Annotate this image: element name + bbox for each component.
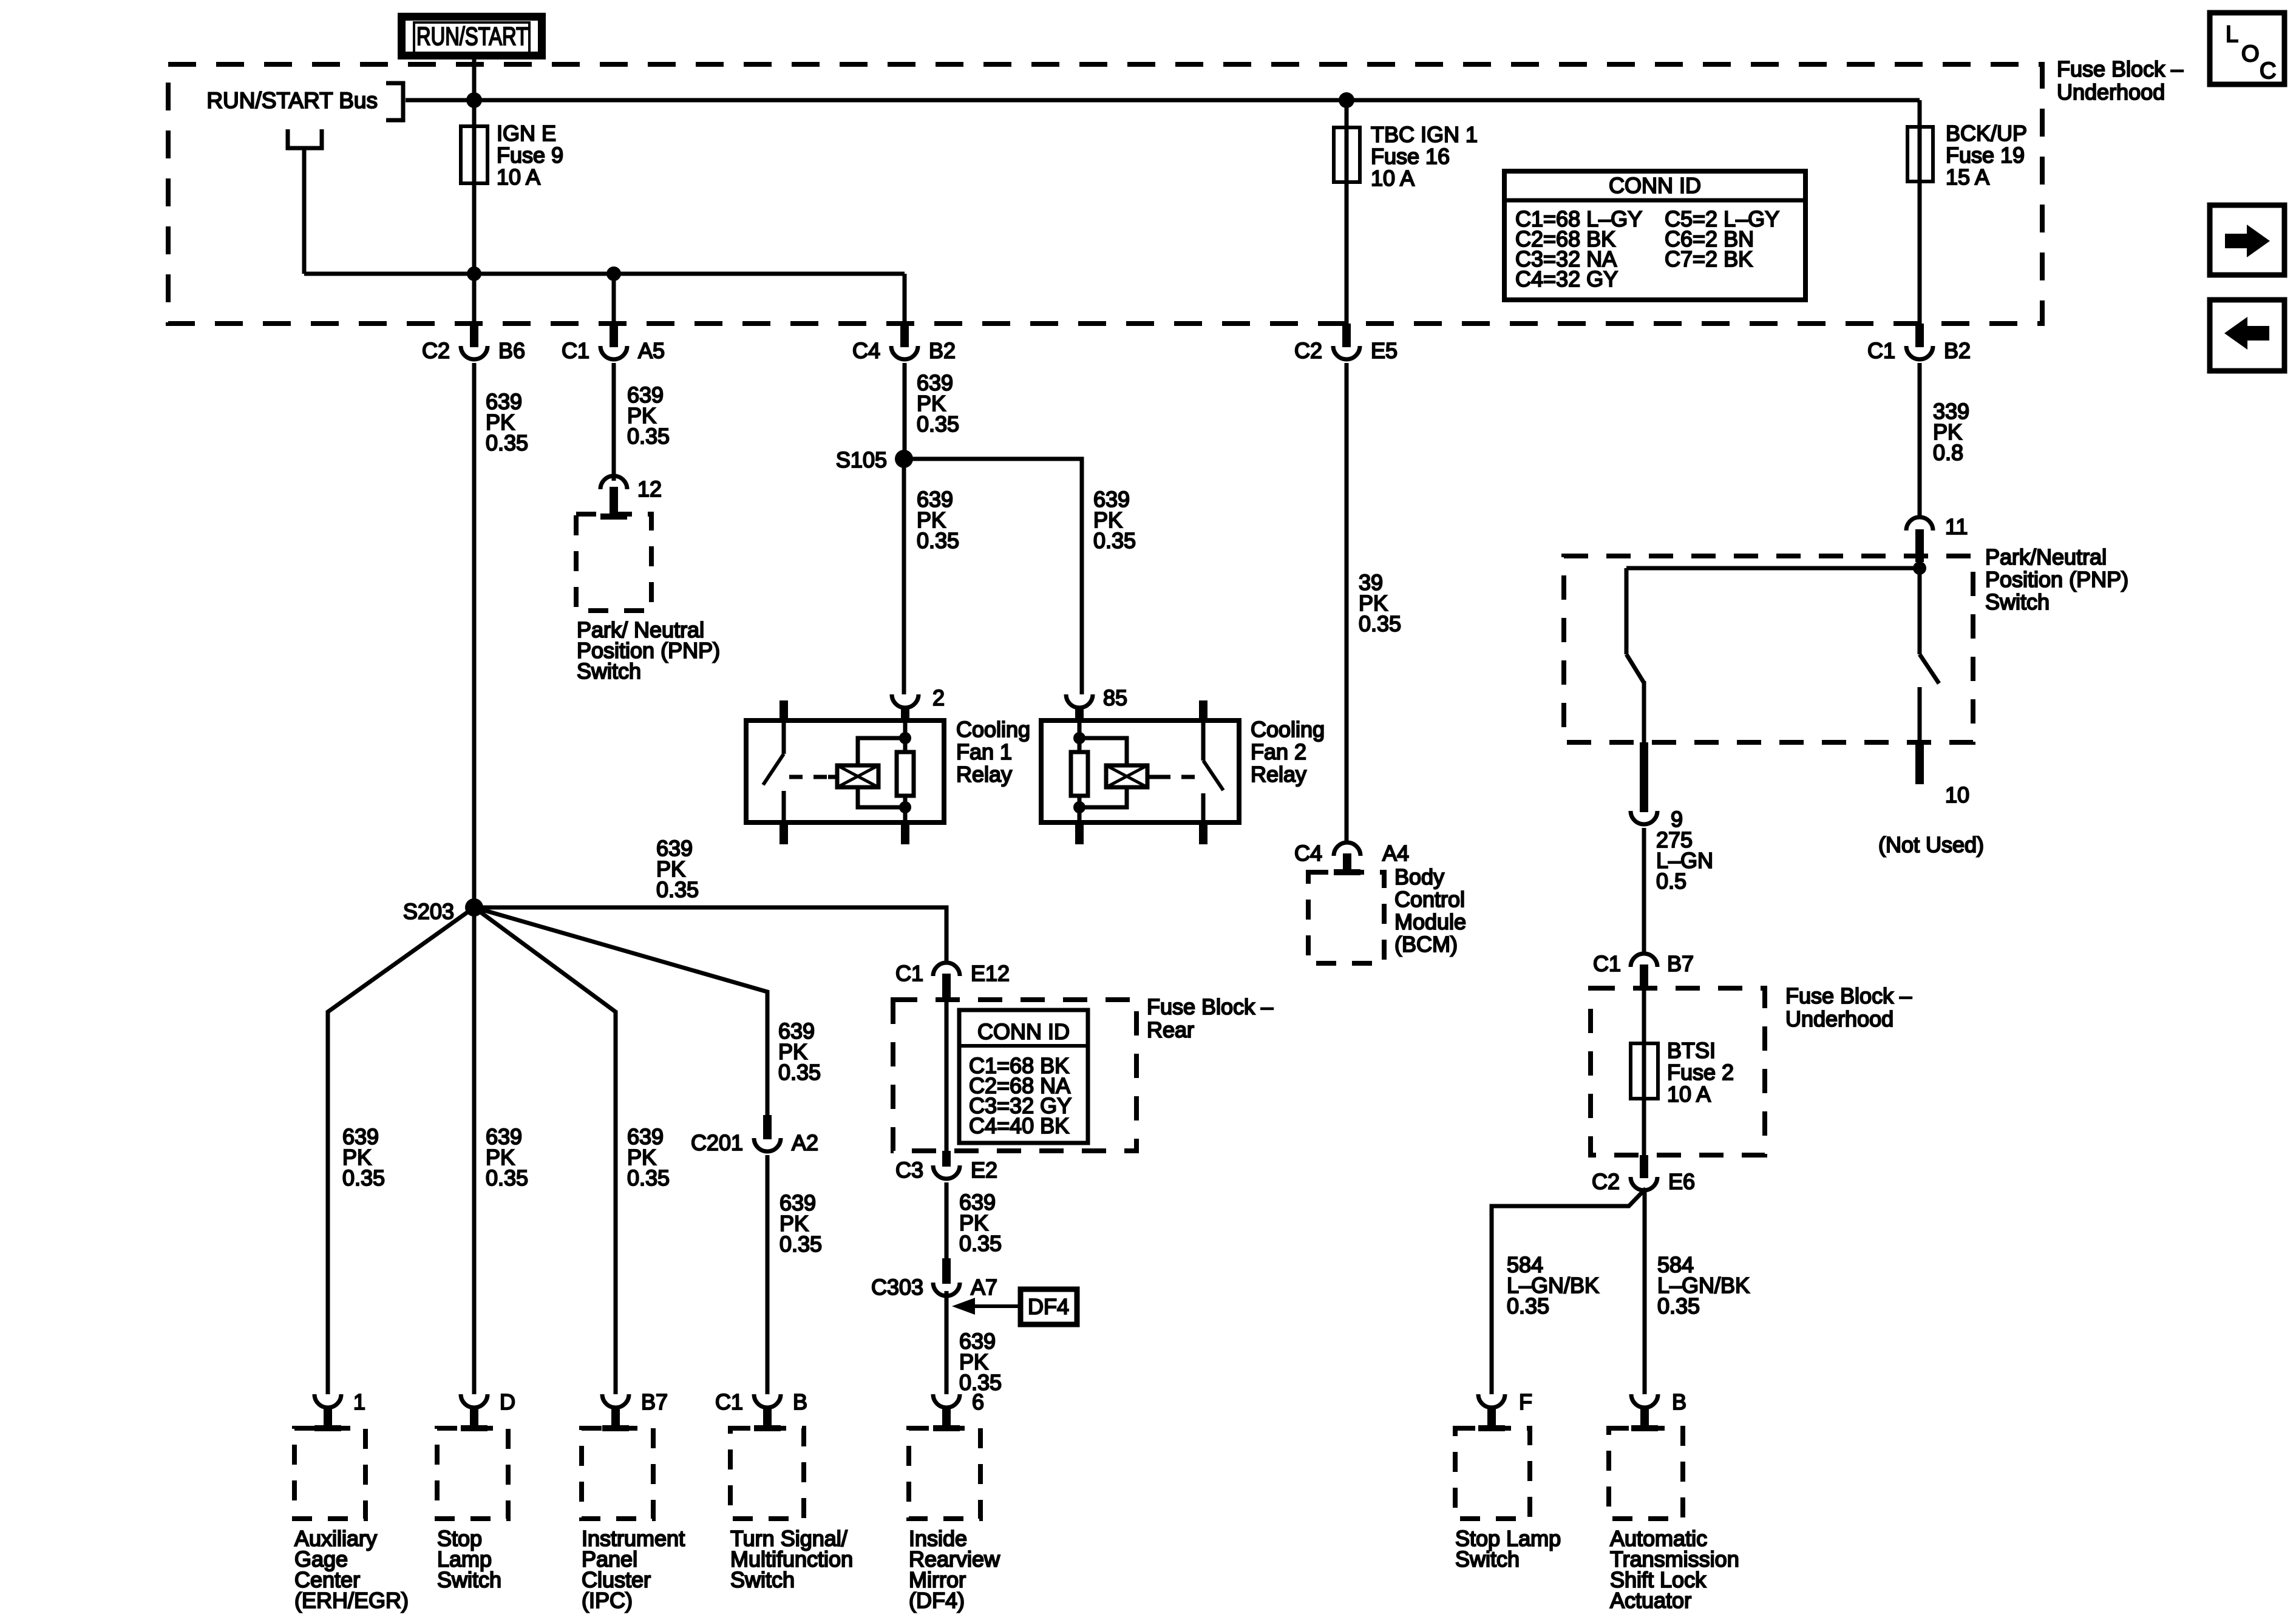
- wire C1 A5 tap down to dashed edge: [612, 274, 616, 324]
- component auxiliary gage center (dashed): [294, 1428, 409, 1613]
- fuse F2 BTSI: [1631, 988, 1734, 1155]
- svg-text:A7: A7: [971, 1275, 997, 1300]
- wire rail corner down to C4 B2 exit: [903, 274, 907, 324]
- node junction rail at C1 A5 tap: [606, 266, 621, 281]
- svg-text:Fuse 2: Fuse 2: [1667, 1060, 1734, 1085]
- wire C201 to turn signal switch: [767, 1155, 822, 1394]
- wire S203 branch to fuse block rear: [474, 836, 946, 964]
- svg-text:O: O: [2241, 41, 2260, 67]
- svg-text:C4: C4: [1294, 841, 1322, 866]
- svg-text:Switch: Switch: [577, 659, 641, 683]
- svg-text:BTSI: BTSI: [1667, 1038, 1716, 1063]
- connector C201 pin A2: [691, 1115, 818, 1155]
- connector C1 pin B7 into fuse block: [1593, 951, 1694, 988]
- connector C303 pin A7: [871, 1258, 997, 1300]
- node bus junction at IGN E feed: [466, 92, 482, 108]
- connector pin D stop lamp switch: [461, 1389, 515, 1428]
- svg-text:RUN/START: RUN/START: [416, 22, 528, 50]
- reference arrow DF4: [952, 1289, 1077, 1324]
- wire 639 PK from A5 to PNP pin 12: [614, 363, 670, 481]
- connector pin B7 instrument panel cluster: [602, 1389, 668, 1428]
- svg-text:(IPC): (IPC): [582, 1588, 633, 1613]
- svg-text:(ERH/EGR): (ERH/EGR): [294, 1588, 409, 1613]
- wire PNP internal feed: [1626, 556, 1920, 568]
- svg-text:CONN ID: CONN ID: [977, 1019, 1070, 1044]
- wire 639 PK C303 to inside rearview mirror: [946, 1291, 1002, 1395]
- splice S203: [403, 898, 483, 924]
- svg-text:C: C: [2260, 58, 2276, 84]
- connector pin 2 at relay 1: [892, 685, 945, 720]
- svg-text:0.35: 0.35: [627, 424, 670, 449]
- label cooling fan 1 relay: [956, 717, 1030, 787]
- wire 639 PK from B6 down to S203: [474, 363, 528, 907]
- wire S203 branch to instrument panel cluster: [474, 907, 670, 1394]
- svg-text:0.35: 0.35: [627, 1165, 670, 1190]
- svg-text:15 A: 15 A: [1946, 164, 1989, 189]
- connector pin 85 at relay 2: [1066, 685, 1127, 720]
- svg-text:Cooling: Cooling: [956, 717, 1030, 742]
- component turn signal multifunction switch (dashed): [730, 1428, 853, 1592]
- svg-text:(BCM): (BCM): [1394, 932, 1458, 957]
- wire S105 branch to cooling fan 2 relay pin 85: [904, 459, 1136, 694]
- power feed label box RUN/START: [402, 17, 542, 56]
- svg-text:RUN/START Bus: RUN/START Bus: [206, 88, 378, 113]
- wire 339 PK from B2 down to PNP pin 11: [1920, 363, 1969, 517]
- RUN/START Bus bracket: [206, 83, 403, 120]
- component stop lamp switch (left, dashed): [437, 1428, 508, 1592]
- svg-text:C1: C1: [1867, 338, 1895, 363]
- switch PNP contact 10 (open): [1920, 568, 1939, 742]
- svg-text:Fuse Block –: Fuse Block –: [1785, 983, 1912, 1008]
- svg-text:C2: C2: [422, 338, 450, 363]
- svg-text:0.5: 0.5: [1656, 869, 1686, 893]
- svg-text:Position (PNP): Position (PNP): [1985, 567, 2128, 592]
- svg-text:L: L: [2226, 22, 2238, 47]
- svg-text:0.35: 0.35: [1507, 1293, 1549, 1318]
- fuse block rear dashed outline: [893, 994, 1273, 1151]
- svg-text:Actuator: Actuator: [1610, 1588, 1691, 1613]
- connector C2 pin E6: [1592, 1155, 1695, 1194]
- wire 39 PK from E5 down to BCM: [1347, 363, 1401, 842]
- svg-text:Underhood: Underhood: [1785, 1006, 1894, 1031]
- svg-text:0.35: 0.35: [486, 1165, 528, 1190]
- connector pin 6 inside rearview mirror: [933, 1389, 984, 1428]
- connector C2 pin E5: [1294, 324, 1398, 363]
- svg-text:C2: C2: [1294, 338, 1322, 363]
- fuse block underhood lower dashed outline: [1591, 983, 1912, 1155]
- svg-text:0.8: 0.8: [1933, 440, 1963, 465]
- svg-text:TBC IGN 1: TBC IGN 1: [1371, 122, 1478, 147]
- svg-text:Fuse Block –: Fuse Block –: [2057, 56, 2183, 81]
- fuse F19 BCK/UP: [1907, 121, 2027, 189]
- svg-text:0.35: 0.35: [342, 1165, 385, 1190]
- legend LOC box: [2210, 13, 2284, 84]
- svg-text:11: 11: [1945, 514, 1968, 539]
- wire S203 branch to C201: [474, 907, 821, 1115]
- svg-text:10 A: 10 A: [497, 164, 540, 189]
- svg-text:E12: E12: [971, 961, 1010, 986]
- svg-text:C1: C1: [895, 961, 923, 986]
- svg-text:C4=32 GY: C4=32 GY: [1515, 266, 1618, 291]
- wire S203 branch to auxiliary gage center: [328, 907, 474, 1394]
- svg-text:(DF4): (DF4): [909, 1588, 965, 1613]
- connector pin 1 auxiliary gage center: [314, 1389, 365, 1428]
- connector pin B shift lock actuator: [1631, 1389, 1686, 1428]
- svg-text:B: B: [1672, 1389, 1686, 1414]
- svg-text:S105: S105: [836, 447, 887, 472]
- connector C1 pin E12 into fuse block rear: [895, 961, 1010, 1000]
- label Fuse Block - Underhood (top right): [2057, 56, 2183, 104]
- wire S203 down to stop lamp switch: [474, 907, 528, 1394]
- connector C3 pin E2: [895, 1151, 997, 1182]
- svg-text:Fuse 19: Fuse 19: [1946, 143, 2025, 168]
- svg-text:Module: Module: [1394, 909, 1466, 934]
- svg-text:Fan 2: Fan 2: [1251, 739, 1306, 764]
- nav arrow back box: [2210, 300, 2284, 371]
- svg-text:Fuse 9: Fuse 9: [497, 143, 563, 168]
- relay K2 cooling fan 2: [1041, 700, 1239, 844]
- svg-text:0.35: 0.35: [656, 877, 699, 902]
- svg-text:E5: E5: [1371, 338, 1398, 363]
- svg-text:Relay: Relay: [956, 762, 1012, 787]
- svg-text:Park/Neutral: Park/Neutral: [1985, 544, 2107, 569]
- svg-text:Underhood: Underhood: [2057, 80, 2165, 104]
- svg-text:CONN ID: CONN ID: [1609, 173, 1701, 198]
- svg-text:0.35: 0.35: [486, 430, 528, 455]
- svg-text:E6: E6: [1668, 1169, 1695, 1194]
- svg-text:DF4: DF4: [1028, 1294, 1069, 1319]
- switch PNP contact 9 (closed path): [1626, 568, 1644, 742]
- conn-id table underhood: [1504, 171, 1805, 300]
- svg-text:0.35: 0.35: [1657, 1293, 1700, 1318]
- svg-text:Switch: Switch: [437, 1567, 501, 1592]
- svg-text:C2: C2: [1592, 1169, 1620, 1194]
- svg-text:BCK/UP: BCK/UP: [1946, 121, 2027, 146]
- svg-text:0.35: 0.35: [779, 1232, 822, 1256]
- wire internal bus second rail: [304, 272, 905, 276]
- svg-text:12: 12: [637, 476, 662, 501]
- conn-id table rear: [959, 1010, 1088, 1143]
- svg-text:10 A: 10 A: [1371, 166, 1415, 191]
- svg-text:0.35: 0.35: [778, 1060, 821, 1085]
- pin 10 not used: [1878, 742, 1984, 857]
- svg-text:C7=2 BK: C7=2 BK: [1665, 246, 1753, 271]
- svg-text:F: F: [1519, 1389, 1532, 1414]
- connector C1 pin B2 (right): [1867, 324, 1971, 363]
- svg-text:B6: B6: [498, 338, 525, 363]
- svg-text:Fuse 16: Fuse 16: [1371, 144, 1450, 169]
- node bus junction at TBC IGN 1: [1339, 92, 1354, 108]
- svg-text:10 A: 10 A: [1667, 1082, 1711, 1107]
- wire 639 PK E2 to C303: [946, 1182, 1002, 1258]
- svg-text:Switch: Switch: [1985, 589, 2050, 614]
- connector C4 pin B2: [852, 324, 956, 363]
- connector C1 pin A5: [562, 324, 665, 363]
- svg-text:2: 2: [932, 685, 945, 710]
- splice S105: [836, 447, 913, 472]
- node junction rail at IGN E: [467, 266, 481, 281]
- component Park/Neutral Position switch (left, dashed): [576, 514, 720, 683]
- wire bus corner down to BCK/UP fuse: [1918, 100, 1922, 324]
- svg-text:Cooling: Cooling: [1251, 717, 1325, 742]
- svg-text:S203: S203: [403, 899, 454, 924]
- svg-text:0.35: 0.35: [1359, 611, 1401, 636]
- wire 584 branch to stop lamp switch: [1492, 1188, 1646, 1394]
- svg-text:A4: A4: [1382, 841, 1409, 866]
- wire RUN/START bus horizontal: [406, 98, 1920, 103]
- connector pin 11 of PNP switch: [1906, 514, 1968, 562]
- svg-text:Control: Control: [1394, 887, 1465, 912]
- component body control module (dashed): [1308, 864, 1466, 963]
- svg-text:0.35: 0.35: [1093, 528, 1136, 553]
- bus stub (unused tap) below RUN/START Bus label: [288, 129, 322, 274]
- svg-text:0.35: 0.35: [917, 412, 959, 436]
- svg-text:C3: C3: [895, 1158, 923, 1182]
- svg-text:1: 1: [353, 1389, 365, 1414]
- svg-text:Switch: Switch: [1455, 1547, 1520, 1571]
- svg-text:C1: C1: [715, 1389, 743, 1414]
- label cooling fan 2 relay: [1251, 717, 1325, 787]
- svg-text:C4: C4: [852, 338, 880, 363]
- svg-text:C4=40 BK: C4=40 BK: [969, 1113, 1069, 1138]
- wire 275 L-GN from pin 9 to C1 B7: [1644, 827, 1713, 954]
- connector pin 9 of PNP switch: [1631, 742, 1683, 832]
- svg-text:E2: E2: [971, 1158, 997, 1182]
- fuse F9 IGN E: [461, 121, 563, 274]
- connector C4 pin A4 into BCM: [1294, 841, 1409, 872]
- component park/neutral position switch (right, dashed): [1564, 544, 2128, 742]
- wire 639 PK from B2 down to S105: [905, 363, 959, 459]
- fuse F16 TBC IGN 1: [1334, 100, 1478, 324]
- svg-text:Switch: Switch: [730, 1567, 795, 1592]
- svg-text:A2: A2: [792, 1130, 818, 1155]
- wire S105 to cooling fan 1 relay pin 2: [904, 459, 959, 694]
- svg-text:C1: C1: [562, 338, 589, 363]
- relay K1 cooling fan 1: [746, 700, 944, 844]
- svg-text:IGN E: IGN E: [497, 121, 556, 146]
- svg-text:D: D: [500, 1389, 515, 1414]
- svg-text:0.35: 0.35: [959, 1231, 1002, 1256]
- svg-text:C201: C201: [691, 1130, 743, 1155]
- wire RUN/START feed down into fuse block: [472, 57, 477, 126]
- wire IGN E fuse to C2 B6 exit: [472, 274, 477, 324]
- fuse block underhood dashed outline: [168, 64, 2042, 324]
- svg-text:(Not Used): (Not Used): [1878, 832, 1984, 857]
- svg-text:Relay: Relay: [1251, 762, 1306, 787]
- svg-text:0.35: 0.35: [917, 528, 959, 553]
- svg-text:B: B: [793, 1389, 807, 1414]
- svg-text:B2: B2: [1944, 338, 1971, 363]
- svg-text:Fan 1: Fan 1: [956, 739, 1012, 764]
- svg-text:Rear: Rear: [1147, 1017, 1194, 1042]
- connector C2 pin B6: [422, 324, 525, 363]
- connector pin 12 of PNP switch: [600, 476, 662, 517]
- svg-text:Fuse Block –: Fuse Block –: [1147, 994, 1273, 1019]
- svg-text:6: 6: [972, 1389, 984, 1414]
- svg-text:10: 10: [1945, 782, 1969, 807]
- connector pin F stop lamp switch: [1478, 1389, 1532, 1428]
- component stop lamp switch (right, dashed): [1455, 1428, 1561, 1571]
- svg-text:B2: B2: [929, 338, 956, 363]
- svg-text:C303: C303: [871, 1275, 923, 1300]
- svg-text:85: 85: [1103, 685, 1127, 710]
- svg-text:B7: B7: [1667, 951, 1694, 976]
- component instrument panel cluster (dashed): [582, 1428, 685, 1613]
- component inside rearview mirror (dashed): [909, 1428, 1000, 1613]
- component automatic transmission shift lock actuator (dashed): [1609, 1428, 1739, 1613]
- svg-text:Body: Body: [1394, 864, 1444, 889]
- svg-text:C1: C1: [1593, 951, 1621, 976]
- svg-text:B7: B7: [641, 1389, 668, 1414]
- wire 584 to shift lock actuator: [1645, 1191, 1750, 1394]
- connector C1 pin B turn signal switch: [715, 1389, 807, 1428]
- nav arrow forward box: [2210, 205, 2284, 275]
- svg-text:A5: A5: [638, 338, 665, 363]
- node PNP internal junction: [1913, 561, 1926, 575]
